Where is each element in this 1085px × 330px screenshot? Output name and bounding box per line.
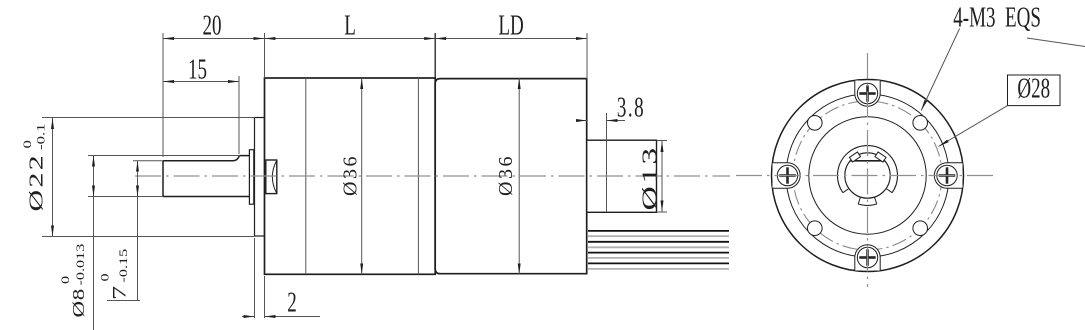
- bearing stub silhouette arc: [272, 161, 276, 193]
- pocket left: [773, 163, 801, 188]
- carrier boss circle with cutout notches: [838, 146, 898, 206]
- dim 7: [137, 161, 139, 197]
- screw left: [777, 165, 797, 185]
- shaft circle with flat: [845, 153, 890, 198]
- screw top: [857, 83, 877, 103]
- dim 2 extension lines: [254, 238, 256, 318]
- gearbox body outline: [265, 78, 436, 274]
- centerline (side view axis): [135, 175, 730, 177]
- svg-text:0: 0: [59, 276, 72, 284]
- svg-text:20: 20: [203, 10, 222, 42]
- screw bottom: [857, 247, 877, 267]
- svg-text:4-M3 EQS: 4-M3 EQS: [953, 2, 1041, 34]
- leader 4-M3: [921, 29, 959, 111]
- key tab left: [849, 152, 860, 162]
- screw right: [937, 165, 957, 185]
- leader D28: [939, 106, 1008, 147]
- motor body outline (rounded): [435, 79, 587, 274]
- dim 7 extension line: [133, 160, 163, 162]
- washer on shaft: [249, 150, 253, 205]
- pilot circle D22: [809, 117, 926, 234]
- svg-text:2: 2: [287, 287, 296, 319]
- svg-text:Ø13: Ø13: [639, 145, 662, 210]
- svg-text:0: 0: [21, 140, 34, 148]
- svg-text:-0.013: -0.013: [74, 244, 87, 286]
- bearing stub on gearbox face: [266, 160, 277, 194]
- M3 hole top-right: [913, 116, 928, 131]
- svg-text:Ø22: Ø22: [24, 153, 47, 211]
- svg-text:15: 15: [188, 54, 207, 86]
- front view vertical centerline: [867, 53, 869, 287]
- pilot disc (2mm, D22): [255, 118, 265, 237]
- dim D36 (motor): [518, 78, 520, 274]
- svg-text:Ø36: Ø36: [495, 154, 517, 196]
- shaft end face: [162, 161, 164, 197]
- gearbox rear face line: [434, 78, 436, 274]
- pocket right: [934, 163, 962, 188]
- shaft flat chord: [850, 160, 885, 162]
- M3 hole top-left: [808, 116, 823, 131]
- dim D36 (gearbox): [361, 78, 363, 274]
- shaft flat edge: [163, 156, 239, 161]
- gearbox internal line 2: [417, 78, 419, 274]
- svg-text:Ø28: Ø28: [1017, 73, 1050, 105]
- label D28 box: [1008, 75, 1061, 106]
- dim 20 extension lines: [162, 33, 164, 157]
- front inner ring circle: [786, 94, 949, 257]
- dim 3.8 (outside arrows): [606, 113, 608, 142]
- svg-text:Ø36: Ø36: [340, 154, 362, 196]
- svg-text:L: L: [344, 10, 356, 42]
- dim D8 extension lines: [88, 155, 240, 157]
- stray leader line: [1027, 38, 1085, 47]
- dim L: [264, 38, 435, 40]
- shaft top edge: [239, 155, 249, 157]
- svg-text:3.8: 3.8: [617, 92, 645, 124]
- pocket bottom: [855, 245, 880, 271]
- gearbox internal line 1: [305, 78, 307, 274]
- front view outer circle (D36): [772, 80, 964, 272]
- svg-text:Ø8: Ø8: [70, 288, 89, 317]
- shaft bottom edge: [163, 196, 249, 198]
- dim 15 extension line: [238, 76, 240, 154]
- dim D13 extension lines: [657, 140, 668, 142]
- rear boss (D13): [587, 140, 657, 212]
- svg-text:0: 0: [98, 273, 111, 281]
- wires: [588, 231, 729, 269]
- dim D22: [52, 118, 54, 237]
- rear boss step line: [606, 114, 608, 212]
- front view horizontal centerline: [736, 175, 998, 177]
- dim D22 extension lines: [42, 117, 255, 119]
- svg-text:-0.1: -0.1: [35, 123, 48, 150]
- dim 15: [163, 81, 239, 83]
- notch edge lines right: [886, 189, 892, 193]
- svg-text:7: 7: [109, 283, 130, 300]
- dim 20: [163, 38, 264, 40]
- M3 hole bottom-left: [808, 221, 823, 236]
- pocket top: [855, 81, 880, 107]
- dim LD extension lines: [434, 33, 436, 78]
- M3 hole bottom-right: [913, 221, 928, 236]
- key tab right: [875, 152, 886, 162]
- notch edge lines left: [843, 189, 849, 193]
- bolt circle D28 (dash-dot): [793, 101, 942, 250]
- dim D8: [93, 156, 95, 197]
- svg-text:-0.15: -0.15: [117, 249, 130, 283]
- dim 2 (outside arrows): [242, 316, 255, 318]
- svg-text:LD: LD: [498, 10, 523, 42]
- dim D13: [661, 141, 663, 212]
- dim LD: [435, 38, 587, 40]
